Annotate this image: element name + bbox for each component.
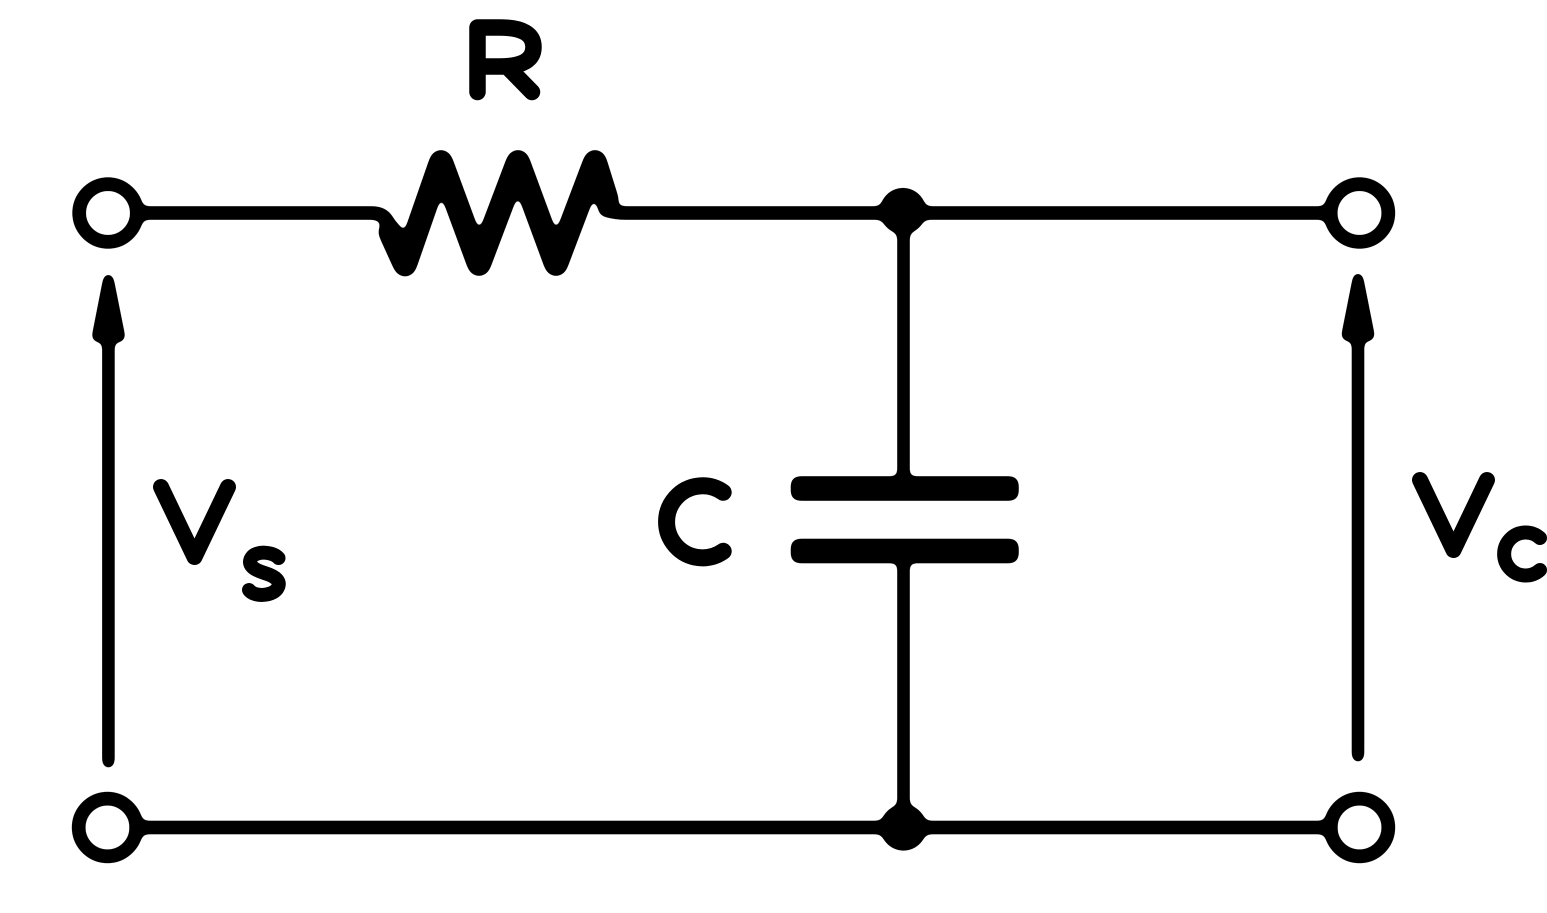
terminal bottom-right [1331, 799, 1389, 857]
label Vs : V [161, 487, 228, 557]
capacitor C top plate [791, 477, 1019, 501]
wire: node A down to capacitor top plate [898, 212, 910, 480]
label Vc : V [1420, 480, 1487, 550]
terminal top-left [79, 184, 137, 242]
wire top-right: node A to right terminal [903, 207, 1330, 220]
resistor R [390, 162, 607, 266]
capacitor C bottom plate [791, 539, 1019, 563]
arrow Vc head [1347, 278, 1370, 336]
wire bottom: left terminal to right terminal [136, 821, 1331, 834]
label Vs : s subscript [249, 553, 279, 595]
label R [478, 28, 534, 93]
arrow Vs shaft (left, pointing up) [102, 338, 114, 762]
label Vc : c subscript [1504, 533, 1540, 576]
node B junction dot (bottom) [881, 805, 927, 851]
arrow Vs head [97, 279, 120, 337]
arrow Vc shaft (right, pointing up) [1352, 337, 1364, 756]
node A junction dot (top) [880, 188, 926, 234]
wire top-left: left terminal to resistor (jog down into zigzag) [137, 213, 390, 226]
wire top-middle: resistor to node A (jog up from zigzag) [605, 210, 903, 213]
label C [667, 486, 724, 558]
wire: capacitor bottom plate down to node B [898, 560, 910, 827]
terminal bottom-left [79, 799, 137, 857]
terminal top-right [1331, 184, 1389, 242]
